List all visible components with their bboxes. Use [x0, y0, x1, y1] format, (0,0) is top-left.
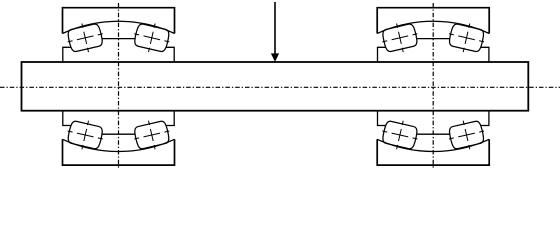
bearing B1 lower half outer spherical raceway	[63, 139, 175, 151]
bearing B2 upper half right barrel roller	[446, 19, 488, 56]
bearing B2 lower half outer spherical raceway	[377, 139, 489, 151]
bearing B2 upper half group	[377, 8, 489, 62]
bearing B2 upper half outer spherical raceway	[377, 21, 489, 33]
bearing B1 upper half left roller cross mark	[82, 23, 89, 52]
bearing B1 lower half inner ring centre rib	[101, 133, 136, 135]
bearing B2 lower half left roller cross mark	[397, 121, 404, 150]
load force arrowhead	[271, 54, 279, 62]
bearing B1 lower half right roller cross mark	[148, 121, 155, 150]
bearing B2 upper half right roller axis mark	[449, 34, 484, 42]
bearing B1 lower half outer ring	[63, 139, 175, 165]
bearing B1 lower half inner ring left step	[63, 111, 81, 125]
bearing B1 upper half right barrel roller	[131, 19, 173, 56]
left bearing centreline (vertical dash-dot)	[118, 3, 120, 169]
bearing B2 upper half left roller axis mark	[382, 34, 417, 42]
bearing B1 upper half inner ring centre rib	[101, 38, 136, 40]
bearing B2 upper half left roller cross mark	[397, 23, 404, 52]
bearing B1 upper half left roller axis mark	[68, 34, 103, 42]
bearing B1 upper half outer spherical raceway	[63, 21, 175, 33]
bearing B1 upper half right roller cross mark	[148, 23, 155, 52]
bearing B2 lower half left roller axis mark	[382, 131, 417, 139]
bearing B2 upper half outer ring	[377, 8, 489, 34]
bearing B1 lower half right roller axis mark	[134, 131, 169, 139]
bearing B2 upper half inner ring left step	[378, 47, 396, 61]
bearing B1 upper half right roller axis mark	[134, 34, 169, 42]
bearing B1 upper half outer ring	[63, 8, 175, 34]
bearing B2 upper half right roller cross mark	[463, 23, 470, 52]
load force arrow shaft	[274, 2, 276, 55]
bearing B2 upper half inner ring right step	[471, 47, 489, 61]
bearing B2 upper half left barrel roller	[379, 19, 421, 56]
bearing B1 upper half group	[63, 8, 175, 62]
right bearing centreline (vertical dash-dot)	[432, 3, 434, 169]
bearing B1 upper half inner ring right step	[157, 47, 175, 61]
bearing B2 lower half outer ring	[377, 139, 489, 165]
bearing B2 lower half inner ring left step	[378, 111, 396, 125]
bearing B1 upper half inner ring left step	[63, 47, 81, 61]
bearing B1 lower half group	[63, 111, 175, 165]
bearing B2 lower half right barrel roller	[446, 117, 488, 154]
bearing B2 lower half right roller axis mark	[449, 131, 484, 139]
bearing B1 lower half left barrel roller	[64, 117, 106, 154]
bearing B1 lower half inner ring right step	[157, 111, 175, 125]
bearing B2 upper half inner ring centre rib	[416, 38, 451, 40]
bearing B2 lower half left barrel roller	[379, 117, 421, 154]
shaft	[22, 62, 529, 111]
bearing B2 lower half group	[377, 111, 489, 165]
bearing B2 lower half inner ring right step	[471, 111, 489, 125]
bearing B2 lower half right roller cross mark	[463, 121, 470, 150]
bearing B1 lower half left roller axis mark	[68, 131, 103, 139]
bearing B1 lower half right barrel roller	[131, 117, 173, 154]
bearing B1 upper half left barrel roller	[64, 19, 106, 56]
bearing B1 lower half left roller cross mark	[82, 121, 89, 150]
shaft centreline (horizontal dash-dot)	[0, 86, 560, 88]
bearing B2 lower half inner ring centre rib	[416, 133, 451, 135]
